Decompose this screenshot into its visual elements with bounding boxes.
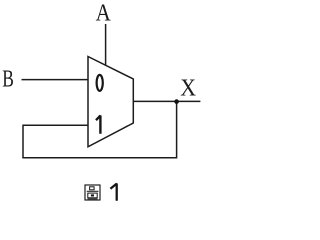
svg-text:X: X: [180, 75, 196, 102]
junction dot: [174, 99, 179, 104]
svg-text:B: B: [2, 66, 14, 93]
pin label 0: [97, 75, 103, 91]
wire feedback right vertical: [176, 101, 178, 158]
wire input 1: [23, 124, 88, 126]
wire output X: [133, 100, 200, 102]
caption numeral 1: [110, 184, 116, 201]
multiplexer U1 body: [88, 57, 133, 147]
wire feedback left vertical: [22, 125, 24, 158]
wire B input: [22, 79, 89, 81]
wire A input: [105, 24, 107, 65]
svg-text:A: A: [96, 0, 112, 26]
wire feedback bottom: [22, 157, 176, 159]
pin label 1: [96, 116, 100, 134]
caption character 圖: [85, 185, 100, 200]
